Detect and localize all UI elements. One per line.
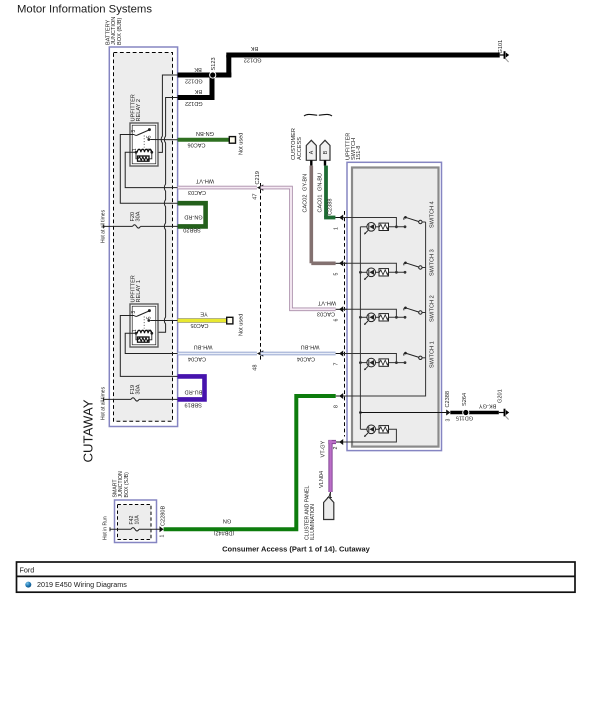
wire to output rail <box>422 312 426 314</box>
svg-text:GY-BN: GY-BN <box>303 174 309 191</box>
relay1 coil <box>132 329 153 342</box>
junction node <box>395 271 398 274</box>
wire return to pin 2 <box>343 429 396 442</box>
svg-text:G101: G101 <box>498 40 504 54</box>
cluster and panel illumination connector <box>305 485 334 540</box>
wire GN-BN CAC06 <box>178 130 230 147</box>
svg-text:WH-BU: WH-BU <box>301 344 320 350</box>
junction node <box>395 225 398 228</box>
svg-text:BK-GY: BK-GY <box>479 402 497 408</box>
resistor <box>379 223 389 230</box>
splice S264 <box>462 393 469 416</box>
wire resistor to contacts <box>389 316 406 318</box>
wire to output rail <box>422 221 426 223</box>
resistor <box>379 359 389 366</box>
wire WH-VT CAC03 (C219 to switch pin 6) <box>261 188 337 317</box>
wire lamp feed <box>360 316 367 318</box>
pin7 top rail <box>343 354 396 363</box>
svg-text:Hot at all times: Hot at all times <box>101 386 107 420</box>
svg-text:RELAY 1: RELAY 1 <box>136 280 142 303</box>
splice S123 <box>210 57 217 78</box>
svg-text:WH-VT: WH-VT <box>317 299 336 305</box>
svg-text:GD122: GD122 <box>244 57 262 63</box>
svg-text:BK: BK <box>194 66 202 72</box>
wire relay1 pin5 to CAC05 <box>150 320 177 322</box>
fuse F19 30A <box>103 384 177 401</box>
svg-text:SWITCH 1: SWITCH 1 <box>429 341 435 368</box>
pin 8 arrow <box>334 393 348 408</box>
wire lamp feed <box>360 428 367 430</box>
wire BK-GY GD115 <box>450 402 499 420</box>
svg-text:BK: BK <box>251 45 259 51</box>
svg-text:SBB20: SBB20 <box>183 227 200 233</box>
resistor <box>379 314 389 321</box>
svg-text:CAC03: CAC03 <box>317 311 335 317</box>
relay U1 UPFITTER RELAY 2 <box>130 94 158 166</box>
svg-text:30A: 30A <box>136 211 142 221</box>
switch output contact <box>419 266 422 269</box>
upfitter switch box <box>347 162 442 450</box>
wire BK vertical riser to G101 run <box>226 55 231 77</box>
svg-text:2019 E450 Wiring Diagrams: 2019 E450 Wiring Diagrams <box>37 580 127 589</box>
fuse F20 30A <box>103 211 177 228</box>
wire relay1 pin1 to CAC04 <box>125 333 177 353</box>
connector terminal (not used) CAC06 <box>229 133 244 155</box>
svg-text:BOX (BJB): BOX (BJB) <box>117 18 123 45</box>
wire lamp feed <box>360 362 367 364</box>
indicator lamp LED <box>367 313 376 322</box>
svg-text:CAC05: CAC05 <box>190 322 208 328</box>
lamp indicator arrow <box>365 231 369 235</box>
wire relay1 pin3 to SBB19 top <box>120 316 177 377</box>
svg-text:6: 6 <box>334 319 340 322</box>
svg-text:WH-BU: WH-BU <box>194 344 213 350</box>
illumination lamp LED <box>367 425 376 434</box>
customer access label <box>291 128 303 160</box>
wire relay2 pin3 to SBB20 top <box>120 135 177 204</box>
svg-text:3: 3 <box>131 311 137 314</box>
relay1 pin 3 and switch blade <box>131 309 151 316</box>
wire resistor to contacts <box>389 271 406 273</box>
svg-text:CAC04: CAC04 <box>188 355 206 361</box>
wire BK GD122 to G101 <box>226 45 499 63</box>
switch output contact <box>419 220 422 223</box>
svg-text:Hot at all times: Hot at all times <box>101 209 107 243</box>
wire lamp to resistor <box>376 316 380 318</box>
SJB name label <box>112 471 130 497</box>
switch contact <box>404 361 407 364</box>
pin 7 arrow <box>334 351 348 366</box>
switch blade <box>404 263 406 266</box>
pin3 line <box>360 412 446 414</box>
wire GY-BN CAC02 <box>303 166 336 264</box>
ground G101 <box>498 40 509 62</box>
BJB name label <box>106 17 123 45</box>
svg-text:GN-BN: GN-BN <box>196 130 214 136</box>
svg-text:SWITCH 4: SWITCH 4 <box>429 201 435 228</box>
lamp indicator arrow <box>365 321 369 325</box>
switch unit rails: pin1 top rail <box>343 218 396 227</box>
svg-text:C2388: C2388 <box>327 199 333 215</box>
svg-text:GD122: GD122 <box>185 100 203 106</box>
svg-text:5: 5 <box>147 135 153 138</box>
svg-text:SWITCH 2: SWITCH 2 <box>429 295 435 322</box>
pin 5 arrow <box>334 260 348 275</box>
wire relay2 pin5 to CAC06 <box>150 139 177 141</box>
svg-text:CAC06: CAC06 <box>187 141 205 147</box>
switch 1 indicator unit <box>360 341 435 370</box>
svg-text:YE: YE <box>200 311 208 317</box>
wire GN-BU CAC01 <box>317 166 335 218</box>
wire WH-BU CAC04 (BJB to C219) <box>178 344 257 362</box>
wire lamp to resistor <box>376 226 380 228</box>
svg-text:Ford: Ford <box>20 566 35 575</box>
wire VT-GY VLN04 <box>319 440 336 492</box>
svg-text:VT-GY: VT-GY <box>321 440 327 457</box>
pin 2 arrow <box>333 439 347 450</box>
wire BK GD122 (second feed) <box>178 88 215 106</box>
pin5 top rail <box>343 263 396 272</box>
ground G201 <box>498 389 510 419</box>
indicator lamp LED <box>367 358 376 367</box>
wire lamp to resistor <box>376 428 380 430</box>
switch contact <box>404 225 407 228</box>
connector terminal (not used) CAC05 <box>227 314 245 336</box>
svg-text:Hot in Run: Hot in Run <box>102 516 108 540</box>
left rail <box>359 227 362 429</box>
svg-text:CAC04: CAC04 <box>297 355 315 361</box>
svg-text:5: 5 <box>147 316 153 319</box>
indicator lamp LED <box>367 223 376 232</box>
svg-text:SBB19: SBB19 <box>184 402 201 408</box>
pin6 top rail <box>343 309 396 317</box>
svg-text:Motor Information Systems: Motor Information Systems <box>17 4 152 16</box>
junction node <box>395 316 398 319</box>
pin stub A <box>310 160 312 165</box>
svg-text:Consumer Access (Part 1 of 14): Consumer Access (Part 1 of 14). Cutaway <box>222 545 371 554</box>
switch blade <box>404 217 406 220</box>
svg-text:CAC02: CAC02 <box>303 194 309 212</box>
connector pentagon A <box>306 140 316 160</box>
wire lamp feed <box>360 271 367 273</box>
wire YE CAC05 <box>178 311 227 329</box>
pin 6 arrow <box>334 306 348 321</box>
lamp indicator arrow <box>365 276 369 280</box>
relay U2 UPFITTER RELAY 1 <box>130 275 158 347</box>
svg-text:3: 3 <box>131 130 137 133</box>
svg-text:C2388: C2388 <box>445 391 451 407</box>
pin 3 arrow <box>445 391 452 421</box>
connector pentagon B <box>320 140 330 160</box>
svg-text:CAC01: CAC01 <box>317 194 323 212</box>
indicator lamp LED <box>367 268 376 277</box>
svg-text:2: 2 <box>333 447 339 450</box>
svg-text:GN: GN <box>223 518 231 524</box>
svg-text:GD122: GD122 <box>185 78 203 84</box>
connector C219 arrow pin 48 <box>252 350 263 370</box>
svg-text:CAC03: CAC03 <box>188 189 206 195</box>
wire WH-VT CAC03 (BJB to C219) <box>178 178 257 195</box>
svg-text:B: B <box>323 150 329 154</box>
svg-text:Not used: Not used <box>239 314 245 336</box>
footer table <box>17 562 576 592</box>
svg-text:8: 8 <box>334 405 340 408</box>
relay2 coil <box>132 148 153 161</box>
wire BK GD122 (first feed) <box>178 66 232 84</box>
wire relay2 pin1 to CAC03 <box>125 152 177 187</box>
illumination lamp unit <box>343 425 396 442</box>
pin stub B <box>324 160 326 165</box>
svg-text:VLN04: VLN04 <box>319 471 325 488</box>
wire to output rail <box>422 267 426 269</box>
wire BK vertical between feeds <box>210 75 215 98</box>
svg-text:CUTAWAY: CUTAWAY <box>81 399 96 462</box>
upfitter switch name label <box>346 133 363 160</box>
svg-text:G201: G201 <box>498 389 504 403</box>
svg-text:GN-RD: GN-RD <box>184 214 202 220</box>
svg-text:A: A <box>309 150 315 154</box>
svg-text:3: 3 <box>446 419 452 422</box>
resistor <box>379 426 389 433</box>
junction node <box>395 361 398 364</box>
svg-text:BOX (SJB): BOX (SJB) <box>124 472 130 498</box>
svg-text:48: 48 <box>252 365 258 371</box>
svg-text:47: 47 <box>252 194 258 200</box>
svg-text:RELAY 2: RELAY 2 <box>136 99 142 122</box>
wire thin: BK feed2 into BJB down to relay1 pin 2 <box>158 98 178 333</box>
svg-text:WH-VT: WH-VT <box>195 178 214 184</box>
fuse F42 10A <box>110 515 160 532</box>
svg-text:1: 1 <box>159 535 165 538</box>
svg-text:10A: 10A <box>135 515 141 525</box>
wire resistor to contacts <box>389 362 406 364</box>
switch contact <box>404 316 407 319</box>
svg-text:151-8: 151-8 <box>356 146 362 160</box>
right output rail <box>343 222 425 396</box>
wire GN DB#42 <box>164 396 336 536</box>
svg-text:7: 7 <box>334 363 340 366</box>
svg-text:(DB#42): (DB#42) <box>213 530 234 536</box>
lamp indicator arrow <box>365 433 369 437</box>
footer row: 2019 E450 Wiring Diagrams <box>25 580 127 589</box>
switch 3 indicator unit <box>360 249 435 280</box>
svg-text:ACCESS: ACCESS <box>297 137 303 160</box>
switch output contact <box>419 356 422 359</box>
connector C2388 dashed line <box>344 211 346 437</box>
svg-text:S123: S123 <box>211 57 217 70</box>
wire thin: BK feed1 into BJB to relay2 pin 2 <box>158 75 178 152</box>
wire lamp to resistor <box>376 271 380 273</box>
svg-text:30A: 30A <box>136 384 142 394</box>
switch 2 indicator unit <box>360 295 435 325</box>
connector C219 dashed line <box>260 183 262 362</box>
switch output contact <box>419 311 422 314</box>
wire lamp to resistor <box>376 362 380 364</box>
svg-text:Not used: Not used <box>239 133 245 155</box>
lamp indicator arrow <box>365 366 369 370</box>
connector C219 arrow pin 47 <box>252 171 263 200</box>
resistor <box>379 269 389 276</box>
wire to output rail <box>422 357 426 359</box>
switch blade <box>404 308 406 311</box>
break squiggle <box>304 114 332 116</box>
svg-text:GN-BU: GN-BU <box>317 173 323 191</box>
svg-text:BK: BK <box>194 88 202 94</box>
svg-text:C219: C219 <box>255 171 261 184</box>
relay2 pin 5 <box>144 135 152 147</box>
svg-text:C2280B: C2280B <box>160 506 166 526</box>
svg-text:5: 5 <box>334 273 340 276</box>
wire resistor to contacts <box>389 226 406 228</box>
switch 4 indicator unit <box>360 201 435 234</box>
svg-text:S264: S264 <box>462 393 468 406</box>
relay1 pin 5 <box>144 316 152 328</box>
wire GN-RD SBB20 loop <box>178 203 206 232</box>
battery junction box (BJB) <box>109 47 177 427</box>
smart junction box (SJB) <box>115 500 157 543</box>
pin 1 arrow <box>334 215 348 231</box>
switch blade <box>404 353 406 356</box>
wire WH-BU CAC04 (C219 to switch pin 7) <box>261 344 336 362</box>
svg-text:SWITCH 3: SWITCH 3 <box>429 249 435 276</box>
svg-text:1: 1 <box>334 227 340 230</box>
svg-text:BU-RD: BU-RD <box>185 388 203 394</box>
connector C2280B arrow pin 1 <box>159 506 166 538</box>
svg-text:ILLUMINATION: ILLUMINATION <box>310 504 316 540</box>
switch contact <box>404 271 407 274</box>
wire BU-RD SBB19 loop <box>178 376 205 407</box>
wire lamp feed <box>360 226 367 228</box>
relay2 pin 3 and switch blade <box>131 128 151 135</box>
